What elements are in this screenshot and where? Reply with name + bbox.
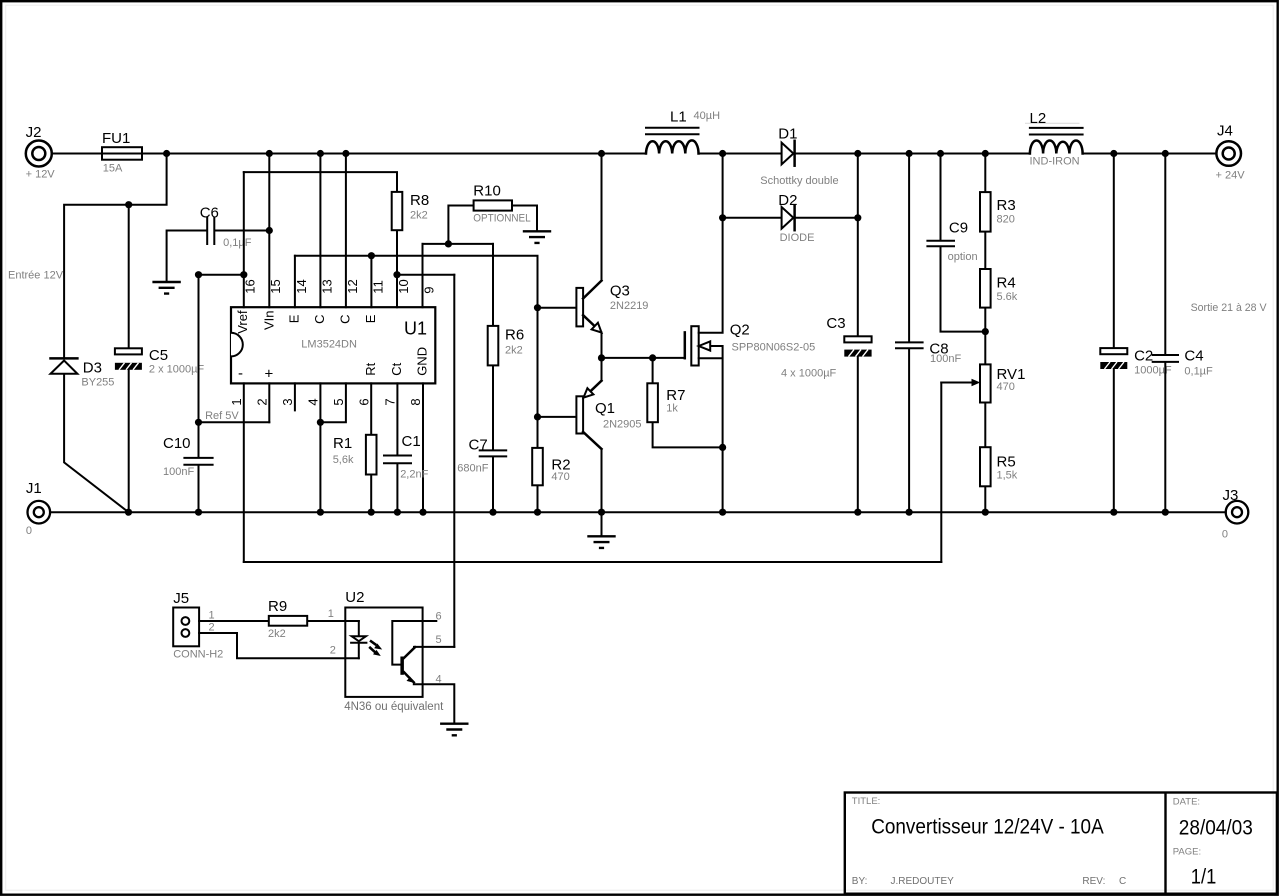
svg-text:6: 6 (356, 398, 371, 405)
svg-text:Rt: Rt (363, 362, 378, 375)
svg-text:15A: 15A (103, 163, 123, 175)
svg-text:L2: L2 (1030, 110, 1047, 127)
svg-text:R8: R8 (410, 192, 429, 209)
svg-text:Schottky double: Schottky double (760, 175, 838, 187)
svg-text:470: 470 (551, 471, 569, 483)
svg-text:2 x 1000µF: 2 x 1000µF (149, 364, 205, 376)
svg-text:R7: R7 (666, 387, 685, 404)
svg-text:1: 1 (229, 398, 244, 405)
svg-text:BY:: BY: (852, 876, 868, 887)
svg-text:C: C (1119, 876, 1126, 887)
svg-text:6: 6 (436, 611, 442, 623)
svg-text:10: 10 (396, 279, 411, 293)
svg-text:2N2219: 2N2219 (610, 300, 649, 312)
svg-text:option: option (948, 251, 978, 263)
svg-text:C: C (337, 315, 352, 324)
svg-text:VIn: VIn (261, 310, 276, 330)
svg-text:+ 12V: + 12V (26, 169, 56, 181)
svg-text:IND-IRON: IND-IRON (1030, 156, 1080, 168)
svg-text:2k2: 2k2 (268, 628, 286, 640)
svg-text:L1: L1 (670, 109, 687, 126)
svg-text:C1: C1 (402, 433, 421, 450)
svg-text:100nF: 100nF (163, 466, 194, 478)
svg-text:C5: C5 (149, 347, 168, 364)
svg-text:C2: C2 (1134, 348, 1153, 365)
svg-text:D1: D1 (778, 126, 797, 143)
svg-text:680nF: 680nF (457, 462, 488, 474)
svg-text:SPP80N06S2-05: SPP80N06S2-05 (732, 342, 816, 354)
svg-text:2k2: 2k2 (505, 345, 523, 357)
svg-text:C7: C7 (469, 437, 488, 454)
svg-text:DIODE: DIODE (780, 232, 815, 244)
svg-text:C: C (312, 315, 327, 324)
svg-text:R9: R9 (268, 598, 287, 615)
svg-text:4N36 ou équivalent: 4N36 ou équivalent (344, 701, 444, 713)
svg-text:5: 5 (331, 398, 346, 405)
svg-text:J5: J5 (173, 590, 189, 607)
svg-text:E: E (363, 314, 378, 323)
svg-text:2: 2 (254, 398, 269, 405)
svg-text:R5: R5 (997, 454, 1016, 471)
svg-text:R3: R3 (997, 197, 1016, 214)
svg-text:OPTIONNEL: OPTIONNEL (473, 212, 530, 224)
svg-text:J2: J2 (26, 124, 42, 141)
svg-text:2k2: 2k2 (410, 210, 428, 222)
svg-text:J4: J4 (1217, 123, 1233, 140)
svg-text:1/1: 1/1 (1191, 865, 1217, 888)
svg-text:C9: C9 (949, 220, 968, 237)
svg-text:2,2nF: 2,2nF (400, 469, 428, 481)
svg-text:1,5k: 1,5k (997, 470, 1018, 482)
svg-text:PAGE:: PAGE: (1173, 847, 1201, 858)
svg-text:-: - (238, 365, 243, 382)
svg-text:5: 5 (436, 634, 442, 646)
svg-text:820: 820 (997, 214, 1015, 226)
svg-text:FU1: FU1 (102, 130, 130, 147)
svg-text:+: + (265, 366, 274, 383)
svg-text:13: 13 (319, 279, 334, 293)
svg-text:Q1: Q1 (595, 400, 615, 417)
svg-text:0: 0 (1222, 529, 1228, 541)
svg-text:14: 14 (294, 279, 309, 293)
svg-text:R1: R1 (333, 435, 352, 452)
svg-text:LM3524DN: LM3524DN (301, 339, 357, 351)
svg-text:C10: C10 (163, 435, 191, 452)
svg-text:Q3: Q3 (610, 283, 630, 300)
svg-text:5,6k: 5,6k (333, 454, 354, 466)
svg-text:5.6k: 5.6k (997, 291, 1018, 303)
svg-text:R10: R10 (473, 182, 501, 199)
svg-text:Sortie 21 à 28 V: Sortie 21 à 28 V (1191, 302, 1268, 314)
svg-text:11: 11 (370, 280, 385, 294)
svg-text:0: 0 (26, 525, 32, 537)
svg-text:U1: U1 (404, 319, 427, 339)
svg-text:1: 1 (209, 610, 215, 622)
svg-text:Ct: Ct (389, 362, 404, 375)
svg-text:J.REDOUTEY: J.REDOUTEY (891, 876, 955, 887)
svg-text:2N2905: 2N2905 (603, 419, 642, 431)
svg-text:GND: GND (415, 347, 430, 376)
svg-text:28/04/03: 28/04/03 (1179, 817, 1253, 840)
svg-text:0,1µF: 0,1µF (223, 237, 252, 249)
svg-text:4: 4 (436, 674, 442, 686)
svg-text:470: 470 (997, 381, 1015, 393)
svg-text:C3: C3 (826, 315, 845, 332)
svg-text:1: 1 (328, 608, 334, 620)
svg-text:2: 2 (209, 622, 215, 634)
svg-text:BY255: BY255 (81, 377, 114, 389)
svg-text:U2: U2 (345, 589, 364, 606)
svg-text:16: 16 (243, 279, 258, 293)
svg-text:DATE:: DATE: (1173, 797, 1200, 808)
svg-text:CONN-H2: CONN-H2 (173, 649, 223, 661)
svg-text:Entrée 12V: Entrée 12V (8, 270, 64, 282)
svg-text:7: 7 (383, 398, 398, 405)
svg-text:J3: J3 (1223, 487, 1239, 504)
svg-text:40µH: 40µH (694, 110, 721, 122)
svg-text:Ref 5V: Ref 5V (205, 410, 239, 422)
svg-text:TITLE:: TITLE: (852, 796, 881, 807)
svg-text:0,1µF: 0,1µF (1184, 366, 1213, 378)
svg-text:C6: C6 (200, 205, 219, 222)
svg-text:3: 3 (280, 398, 295, 405)
svg-text:15: 15 (268, 279, 283, 293)
svg-text:1k: 1k (666, 403, 678, 415)
svg-text:12: 12 (345, 279, 360, 293)
svg-text:D3: D3 (83, 360, 102, 377)
svg-text:4 x 1000µF: 4 x 1000µF (781, 368, 837, 380)
svg-text:8: 8 (408, 398, 423, 405)
svg-text:D2: D2 (778, 192, 797, 209)
svg-text:E: E (286, 314, 301, 323)
svg-text:J1: J1 (26, 480, 42, 497)
svg-text:Vref: Vref (235, 310, 250, 334)
svg-text:Convertisseur 12/24V - 10A: Convertisseur 12/24V - 10A (871, 815, 1103, 838)
svg-text:Q2: Q2 (730, 322, 750, 339)
svg-text:9: 9 (421, 286, 436, 293)
svg-text:2: 2 (330, 645, 336, 657)
svg-text:4: 4 (306, 398, 321, 405)
svg-text:100nF: 100nF (930, 353, 961, 365)
svg-text:R6: R6 (505, 327, 524, 344)
svg-text:+ 24V: + 24V (1216, 170, 1246, 182)
svg-text:C4: C4 (1184, 348, 1203, 365)
svg-text:REV:: REV: (1082, 876, 1105, 887)
svg-text:R4: R4 (997, 275, 1016, 292)
